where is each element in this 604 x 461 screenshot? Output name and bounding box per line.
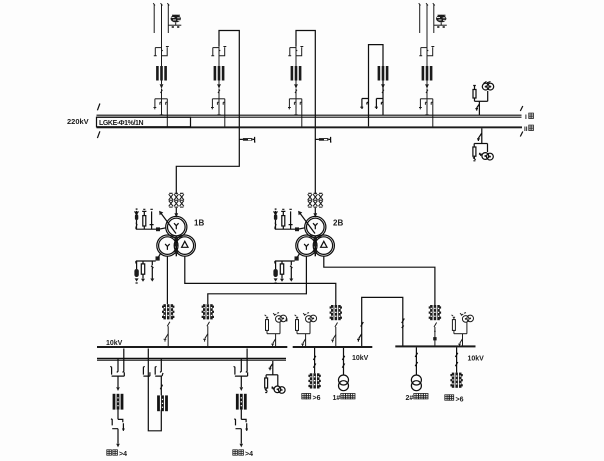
10kV reserve bus (double thin) xyxy=(97,358,286,360)
bus coupler bay (220kV) xyxy=(360,45,388,127)
wire 2B LV to bus section 1 xyxy=(208,256,307,304)
svg-text:2B: 2B xyxy=(333,219,343,228)
CT cluster on 2B LV drop xyxy=(202,304,214,319)
busbar II (220kV, thick) xyxy=(97,126,523,128)
CT cluster on 2B delta drop xyxy=(429,305,441,320)
neutral equipment group 2B HV xyxy=(274,208,305,231)
svg-text:>6: >6 xyxy=(313,395,321,402)
svg-text:1B: 1B xyxy=(194,219,204,228)
svg-text:10kV: 10kV xyxy=(468,356,485,363)
svg-text:II: II xyxy=(524,126,528,133)
label bus I right xyxy=(525,113,533,121)
bus section 1 end mark xyxy=(286,318,288,321)
CT cluster on 1B LV drop xyxy=(162,304,174,319)
label station transformer 2 xyxy=(406,394,429,403)
line feeder bay L2 (220kV) xyxy=(419,3,447,126)
line feeder bay L1 (220kV) xyxy=(153,3,181,126)
transformer 1B (three winding) xyxy=(157,193,205,256)
10kV busbar section 1 (thick) xyxy=(97,346,287,348)
surge arrester on 1B drop line xyxy=(239,137,255,142)
station transformer 1 bay (10kV) xyxy=(339,348,349,391)
cable feeder bay F4 (10kV right bus) xyxy=(450,347,462,387)
wire jumper bay T2 to 2B drop xyxy=(296,31,315,195)
svg-text:>6: >6 xyxy=(456,396,464,403)
svg-text:2#: 2# xyxy=(406,395,414,402)
bus section tie (10kV) xyxy=(357,297,404,346)
neutral equipment group 2B MV xyxy=(273,253,300,283)
transformer feeder bay T1 (220kV to 1B) xyxy=(211,46,226,127)
disconnector to bus on 1B LV drop xyxy=(164,322,170,347)
reserve loop bay (10kV) xyxy=(143,349,168,431)
wire 1B LV to bus section 1 xyxy=(166,256,168,304)
label cable feeder F4 xyxy=(445,395,464,404)
svg-text:1#: 1# xyxy=(333,395,341,402)
neutral equipment group 1B MV xyxy=(134,253,161,283)
label bus II right xyxy=(524,125,533,133)
10kV right busbar (thick) xyxy=(395,345,475,347)
label cable feeder F2 xyxy=(233,450,253,458)
PT bay on bus II (right) xyxy=(473,128,493,161)
transformer 2B (three winding) xyxy=(296,193,344,256)
neutral equipment group 1B HV xyxy=(135,208,166,231)
CT cluster on that drop xyxy=(330,305,342,320)
PT bay on 10kV bus section 2 xyxy=(295,313,317,347)
station transformer 2 bay (10kV right bus) xyxy=(411,347,421,390)
svg-text:I: I xyxy=(525,114,527,121)
svg-text:>4: >4 xyxy=(119,451,127,458)
PT bay on bus I (right) xyxy=(473,82,494,116)
wire 1B delta winding to bus section 2 xyxy=(185,256,336,305)
svg-text:10kV: 10kV xyxy=(106,340,123,347)
bus end ticks left xyxy=(97,104,100,139)
svg-text:10kV: 10kV xyxy=(352,355,369,362)
svg-text:LGKE-Φ1%/1N: LGKE-Φ1%/1N xyxy=(99,120,143,127)
label cable feeder F3 xyxy=(302,394,321,403)
PT bay on 10kV right bus xyxy=(452,313,474,347)
svg-text:220kV: 220kV xyxy=(67,117,89,126)
busbar label box LGKE xyxy=(97,117,191,127)
PT bay on 10kV bus section 1 xyxy=(265,313,287,347)
10kV busbar section 2 (thick) xyxy=(293,346,373,348)
svg-text:>4: >4 xyxy=(245,451,253,458)
bus end ticks right xyxy=(520,106,523,137)
disconnector on 2B LV drop xyxy=(203,322,209,347)
cable feeder bay F2 (10kV) xyxy=(234,349,248,448)
cable feeder bay F1 (10kV) xyxy=(110,349,124,448)
wire 2B delta winding to right bus xyxy=(324,256,435,305)
label station transformer 1 xyxy=(333,394,356,403)
busbar I (220kV, double thin line) xyxy=(97,115,522,117)
transformer feeder bay T2 (220kV to 2B) xyxy=(288,46,303,127)
PT bay on 10kV reserve bus xyxy=(265,361,285,393)
wire jumper bay T1 to 1B drop xyxy=(176,31,239,195)
surge arrester on 2B drop line xyxy=(315,137,331,142)
cable feeder bay F3 (10kV section 2) xyxy=(308,348,320,389)
label cable feeder F1 xyxy=(107,450,127,458)
